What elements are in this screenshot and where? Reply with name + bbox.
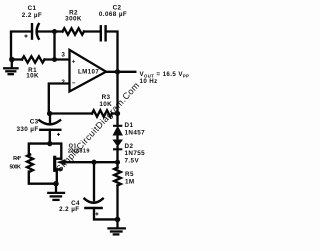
wire top-left corner to C1 xyxy=(11,32,32,60)
resistor R2 xyxy=(63,28,85,34)
transistor Q1 source lead xyxy=(56,170,58,184)
resistor R5 xyxy=(114,168,121,186)
wire R1 to op-amp pin 3 xyxy=(45,58,70,60)
resistor R1 xyxy=(22,56,45,62)
node gate/C4 junction xyxy=(91,160,96,165)
plus mark C4 xyxy=(95,212,98,215)
node pin2/R3/C3 junction xyxy=(47,111,52,116)
resistor R4 xyxy=(27,155,33,172)
transistor Q1 drain stub xyxy=(56,158,62,160)
svg-text:2.2 µF: 2.2 µF xyxy=(59,206,79,213)
node R3 right rail junction xyxy=(115,111,120,116)
capacitor C3 xyxy=(39,120,60,130)
diode D2 1N755 zener xyxy=(113,140,122,150)
node output junction xyxy=(115,69,120,74)
node C3 bottom junction xyxy=(47,141,52,146)
wire C3 node to Q1 drain xyxy=(50,144,62,159)
wire top node down to pin3 node xyxy=(53,32,55,60)
wire C4 top stem xyxy=(93,162,95,200)
svg-text:330 µF: 330 µF xyxy=(16,126,38,133)
node Q1 source junction xyxy=(53,181,59,187)
wire output from op-amp apex xyxy=(106,71,136,73)
svg-text:1N755: 1N755 xyxy=(125,150,146,157)
plus mark C1 xyxy=(24,34,27,37)
resistor R3 xyxy=(92,110,112,116)
wire D2 to gate node xyxy=(116,147,118,168)
wire R2 to C2 xyxy=(84,30,101,32)
wire D1-D2 gap xyxy=(116,134,118,141)
svg-text:7.5V: 7.5V xyxy=(125,158,140,165)
svg-text:1N457: 1N457 xyxy=(125,130,146,137)
ground under Q1 source xyxy=(48,184,64,200)
wire gate line Q1 to right rail xyxy=(63,161,118,163)
capacitor C1 xyxy=(32,24,39,39)
svg-text:10K: 10K xyxy=(99,101,112,108)
wire R4 bottom to source node xyxy=(29,172,56,184)
svg-text:300K: 300K xyxy=(65,16,82,23)
svg-text:3: 3 xyxy=(61,51,65,58)
svg-text:+: + xyxy=(72,58,76,65)
wire C3 node to R4 xyxy=(29,144,50,155)
transistor Q1 gate arrow xyxy=(57,160,65,165)
capacitor C2 xyxy=(101,26,106,40)
op-amp U1 LM107 triangle xyxy=(70,50,107,92)
wire C3 bottom stem xyxy=(49,130,51,144)
svg-text:10 Hz: 10 Hz xyxy=(140,78,158,85)
svg-text:10K: 10K xyxy=(26,73,39,80)
diode D1 1N457 xyxy=(113,126,122,135)
svg-text:−: − xyxy=(72,80,76,87)
svg-text:0.068 µF: 0.068 µF xyxy=(99,11,127,18)
wire C2 to top-right corner, down right rail xyxy=(106,32,118,126)
svg-text:D2: D2 xyxy=(125,143,134,150)
node pin3 junction xyxy=(52,57,57,62)
wire C3 top stem xyxy=(49,114,51,123)
wire R5 to bottom node xyxy=(116,186,118,220)
svg-text:C1: C1 xyxy=(28,5,37,12)
svg-text:1M: 1M xyxy=(125,179,135,186)
wire node to R1 xyxy=(11,58,22,60)
node R1 ground junction xyxy=(9,57,15,63)
svg-text:500K: 500K xyxy=(10,164,21,170)
svg-text:C3: C3 xyxy=(30,119,39,126)
svg-text:D1: D1 xyxy=(125,122,134,129)
ground left xyxy=(4,60,17,75)
wire op-amp pin 2 xyxy=(49,84,69,114)
node top-left junction xyxy=(52,29,57,34)
wire C4 bottom stem and bottom wire xyxy=(94,208,118,219)
capacitor C4 xyxy=(84,199,102,208)
wire R3 right lead xyxy=(112,112,118,114)
wire C1 right to top-left node xyxy=(37,30,62,32)
svg-text:2.2 µF: 2.2 µF xyxy=(22,12,42,19)
svg-text:2: 2 xyxy=(61,79,65,86)
svg-text:2N3819: 2N3819 xyxy=(68,148,90,154)
svg-text:R5: R5 xyxy=(125,171,134,178)
transistor Q1 channel bar xyxy=(53,157,56,170)
transistor Q1 source stub xyxy=(56,168,62,170)
svg-text:LM107: LM107 xyxy=(78,69,99,76)
plus mark C3 xyxy=(57,133,60,136)
ground bottom right xyxy=(109,219,125,234)
wire R3 left lead xyxy=(49,112,92,114)
node gate right rail junction xyxy=(115,160,120,165)
node bottom right junction xyxy=(115,217,121,223)
